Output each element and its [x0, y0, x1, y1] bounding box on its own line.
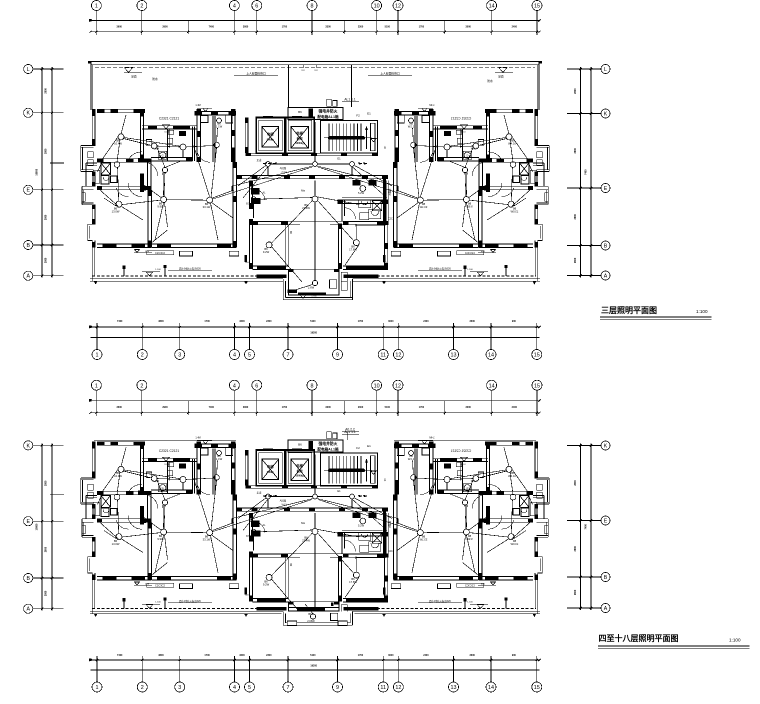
svg-text:15: 15: [534, 4, 540, 10]
svg-text:1700: 1700: [358, 654, 364, 657]
svg-text:15: 15: [534, 383, 540, 389]
svg-text:5100: 5100: [310, 320, 316, 323]
svg-text:2: 2: [141, 353, 144, 359]
svg-text:4: 4: [233, 353, 236, 359]
svg-text:K: K: [26, 111, 30, 117]
svg-text:2800: 2800: [45, 480, 48, 486]
svg-text:10: 10: [374, 4, 380, 10]
svg-text:2400: 2400: [512, 406, 518, 409]
svg-text:2300: 2300: [358, 406, 364, 409]
svg-text:3800: 3800: [158, 320, 164, 323]
svg-text:12: 12: [395, 685, 401, 691]
svg-text:7400: 7400: [117, 320, 123, 323]
plan2 protrusion corner blocks: [287, 621, 296, 625]
plan1 bottom dimension band: [89, 320, 542, 360]
plan2 protrusion wire: [305, 604, 313, 614]
svg-text:防水: 防水: [487, 79, 493, 83]
svg-text:1: 1: [96, 353, 99, 359]
svg-text:1700: 1700: [204, 654, 210, 657]
svg-text:11: 11: [380, 353, 386, 359]
svg-text:2800: 2800: [574, 589, 577, 595]
svg-text:2300: 2300: [266, 654, 272, 657]
svg-text:3000: 3000: [466, 406, 472, 409]
svg-text:10800: 10800: [36, 523, 39, 530]
svg-text:7: 7: [287, 685, 290, 691]
svg-text:2800: 2800: [574, 480, 577, 486]
svg-text:5100: 5100: [310, 654, 316, 657]
svg-text:2800: 2800: [45, 546, 48, 552]
svg-text:3600: 3600: [470, 320, 476, 323]
svg-text:1700: 1700: [282, 25, 288, 28]
svg-text:2400: 2400: [423, 654, 429, 657]
svg-text:上人屋面检修口: 上人屋面检修口: [246, 72, 266, 76]
svg-text:7400: 7400: [585, 169, 588, 175]
svg-text:10800: 10800: [36, 168, 39, 175]
svg-text:10: 10: [374, 383, 380, 389]
svg-text:5: 5: [248, 685, 251, 691]
svg-text:3600: 3600: [470, 654, 476, 657]
svg-text:9: 9: [336, 353, 339, 359]
svg-text:5: 5: [248, 353, 251, 359]
svg-text:14: 14: [488, 353, 494, 359]
svg-text:2: 2: [140, 4, 143, 10]
svg-text:B: B: [26, 243, 30, 249]
svg-text:2800: 2800: [574, 88, 577, 94]
svg-text:15: 15: [534, 685, 540, 691]
terrace level mark right: [499, 68, 507, 73]
svg-text:E: E: [26, 188, 30, 194]
svg-text:12: 12: [395, 353, 401, 359]
plan2 bottom dimension band: [89, 654, 542, 692]
svg-text:2: 2: [141, 685, 144, 691]
svg-text:1700: 1700: [419, 406, 425, 409]
svg-text:2800: 2800: [45, 590, 48, 596]
svg-text:▭: ▭: [301, 68, 304, 72]
plan2 body: [81, 430, 549, 632]
svg-text:3000: 3000: [466, 25, 472, 28]
svg-text:13: 13: [451, 685, 457, 691]
svg-text:2400: 2400: [423, 320, 429, 323]
svg-text:2: 2: [140, 383, 143, 389]
plan2 protrusion variant: whiteout: [282, 612, 355, 635]
svg-text:3300: 3300: [239, 320, 245, 323]
svg-text:3000: 3000: [388, 320, 394, 323]
svg-text:3800: 3800: [243, 406, 249, 409]
svg-text:5100: 5100: [385, 406, 391, 409]
terrace divider left: [288, 65, 290, 107]
plan2 left axis extra tick: [50, 493, 64, 495]
svg-text:4: 4: [233, 685, 236, 691]
svg-text:9: 9: [336, 685, 339, 691]
plan2 switch blob: [331, 603, 333, 606]
svg-text:K: K: [604, 443, 608, 449]
svg-text:E: E: [604, 186, 608, 192]
svg-text:2800: 2800: [45, 257, 48, 263]
svg-text:3800: 3800: [243, 25, 249, 28]
plan1 body: [81, 98, 549, 300]
svg-text:2800: 2800: [574, 257, 577, 263]
svg-text:11: 11: [380, 685, 386, 691]
plan2 protrusion light: [310, 614, 315, 619]
svg-text:1: 1: [96, 685, 99, 691]
svg-text:3: 3: [178, 353, 181, 359]
svg-text:2300: 2300: [358, 25, 364, 28]
svg-text:防水: 防水: [152, 77, 158, 81]
svg-text:2800: 2800: [45, 88, 48, 94]
plan2 protrusion outer shell: [282, 611, 284, 625]
svg-text:7400: 7400: [585, 523, 588, 529]
svg-text:7400: 7400: [209, 406, 215, 409]
svg-text:12: 12: [395, 4, 401, 10]
svg-text:B: B: [604, 575, 608, 581]
svg-text:B: B: [604, 243, 608, 249]
svg-text:15: 15: [534, 353, 540, 359]
svg-text:2.66W: 2.66W: [307, 619, 315, 623]
svg-text:12: 12: [395, 383, 401, 389]
svg-text:1:100: 1:100: [696, 309, 708, 314]
svg-text:13: 13: [451, 353, 457, 359]
svg-text:2300: 2300: [266, 320, 272, 323]
svg-text:8: 8: [311, 4, 314, 10]
svg-text:E: E: [26, 519, 30, 525]
svg-text:2800: 2800: [45, 148, 48, 154]
svg-text:2800: 2800: [574, 147, 577, 153]
plan1 left axis extra tick: [50, 162, 64, 164]
plan1 terrace parapet: [88, 61, 542, 110]
plan2 left axis: [24, 441, 64, 614]
svg-text:6: 6: [255, 383, 258, 389]
svg-text:四至十八层照明平面图: 四至十八层照明平面图: [599, 633, 679, 643]
svg-text:14: 14: [489, 4, 495, 10]
svg-text:B6: B6: [308, 612, 312, 616]
svg-text:4: 4: [233, 4, 236, 10]
plan1 top dimension band: [89, 1, 542, 35]
svg-text:19200: 19200: [310, 332, 317, 335]
svg-text:E: E: [604, 518, 608, 524]
svg-text:1700: 1700: [282, 406, 288, 409]
svg-text:3800: 3800: [158, 654, 164, 657]
svg-text:3000: 3000: [388, 654, 394, 657]
svg-text:900: 900: [512, 320, 517, 323]
plan2 top dimension band: [89, 380, 542, 416]
plan2 protrusion room bottom wall: [288, 607, 339, 609]
svg-text:A: A: [26, 274, 30, 280]
svg-text:7: 7: [287, 353, 290, 359]
terrace divider right: [351, 65, 353, 107]
svg-text:900: 900: [512, 654, 517, 657]
svg-text:14: 14: [488, 685, 494, 691]
svg-text:K: K: [26, 443, 30, 449]
svg-text:8: 8: [311, 383, 314, 389]
svg-text:屋面: 屋面: [498, 75, 504, 79]
svg-text:B: B: [26, 576, 30, 582]
svg-text:14: 14: [489, 383, 495, 389]
svg-text:3300: 3300: [325, 406, 331, 409]
svg-text:1: 1: [95, 4, 98, 10]
svg-text:3600: 3600: [117, 406, 123, 409]
svg-text:1700: 1700: [204, 320, 210, 323]
plan2 protrusion fixture: [331, 613, 338, 620]
svg-text:2900: 2900: [162, 406, 168, 409]
svg-text:1:100: 1:100: [729, 638, 741, 643]
svg-text:5100: 5100: [385, 25, 391, 28]
svg-text:屋面: 屋面: [131, 75, 137, 79]
svg-text:3: 3: [178, 685, 181, 691]
svg-text:4: 4: [233, 383, 236, 389]
svg-text:2900: 2900: [162, 25, 168, 28]
svg-text:1700: 1700: [358, 320, 364, 323]
svg-text:3300: 3300: [239, 654, 245, 657]
svg-text:1: 1: [95, 383, 98, 389]
svg-text:1700: 1700: [419, 25, 425, 28]
svg-text:三层照明平面图: 三层照明平面图: [601, 306, 657, 315]
plan2 top outer roof line right: [394, 439, 536, 441]
plan2 title: [598, 633, 750, 648]
svg-text:L: L: [27, 67, 30, 73]
svg-text:L: L: [604, 67, 607, 73]
svg-text:2800: 2800: [45, 214, 48, 220]
plan1 title: [600, 306, 712, 320]
svg-text:▭: ▭: [314, 68, 317, 72]
plan1 left axis: [24, 64, 64, 280]
svg-text:A: A: [604, 606, 608, 612]
svg-text:A: A: [604, 273, 608, 279]
svg-text:K: K: [604, 111, 608, 117]
svg-text:2400: 2400: [512, 25, 518, 28]
plan2 top outer roof line left: [94, 439, 236, 441]
svg-text:2800: 2800: [574, 545, 577, 551]
svg-text:6: 6: [255, 4, 258, 10]
plan1 right axis: [567, 64, 610, 280]
svg-text:3600: 3600: [117, 25, 123, 28]
svg-text:7400: 7400: [117, 654, 123, 657]
plan2 right axis: [567, 441, 610, 613]
terrace level mark left: [125, 68, 133, 73]
svg-text:19200: 19200: [310, 664, 317, 667]
svg-text:A: A: [26, 607, 30, 613]
svg-text:7400: 7400: [209, 25, 215, 28]
svg-text:3300: 3300: [325, 25, 331, 28]
svg-text:上人屋面检修口: 上人屋面检修口: [380, 72, 400, 76]
svg-text:2800: 2800: [574, 213, 577, 219]
